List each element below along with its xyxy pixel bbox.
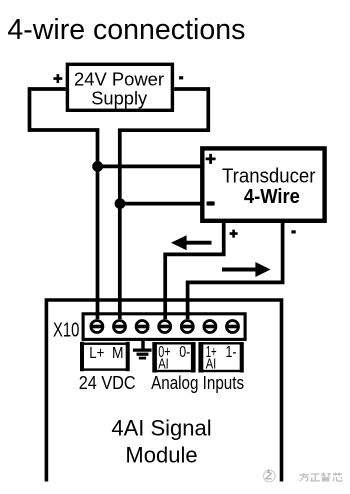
- svg-text:AI: AI: [206, 355, 217, 372]
- junction node dot 1 (L+ to transducer +): [92, 161, 103, 172]
- svg-text:Supply: Supply: [91, 88, 148, 109]
- svg-text:Transducer: Transducer: [222, 166, 316, 188]
- label - (transducer input): [207, 201, 215, 205]
- svg-text:24V Power: 24V Power: [74, 69, 164, 90]
- svg-text:L+: L+: [89, 345, 104, 362]
- wire M : power supply - to terminal 2: [120, 89, 209, 319]
- svg-text:X10: X10: [53, 320, 79, 342]
- 4AI signal module box (open bottom): [46, 300, 281, 482]
- svg-text:0-: 0-: [179, 344, 190, 361]
- label + (power supply positive terminal): [53, 74, 62, 83]
- watermark text (simplified CJK strokes): [299, 473, 342, 482]
- transducer - output wire to terminal 5: [188, 221, 283, 319]
- svg-text:4-wire connections: 4-wire connections: [7, 14, 245, 46]
- terminal screw 3 (functional earth): [136, 321, 148, 333]
- terminal screw 6 (1+): [204, 321, 216, 333]
- label - (transducer output wire): [291, 230, 295, 233]
- svg-text:4-Wire: 4-Wire: [244, 186, 300, 208]
- terminal screw 4 (0+): [159, 321, 171, 333]
- wire node2 to transducer - input: [120, 202, 203, 206]
- svg-text:4AI Signal: 4AI Signal: [111, 415, 211, 440]
- 4AI Signal Module label: [111, 415, 211, 467]
- label + (transducer output wire): [230, 230, 238, 238]
- label + (transducer input): [206, 154, 216, 164]
- svg-text:1-: 1-: [226, 344, 237, 361]
- watermark logo icon: [264, 470, 276, 482]
- transducer box: [202, 148, 324, 220]
- svg-text:Analog Inputs: Analog Inputs: [151, 373, 244, 393]
- transducer + output wire to terminal 4: [165, 221, 224, 319]
- svg-text:M: M: [112, 345, 124, 362]
- 24VDC terminal label box (L+ M): [80, 342, 130, 371]
- terminal screw 2 (M): [114, 321, 126, 333]
- svg-text:AI: AI: [158, 355, 169, 372]
- analog input 1 terminal label box (1+ AI 1-): [198, 342, 243, 372]
- analog input 0 terminal label box (0+ AI 0-): [152, 342, 195, 372]
- wire L+ : power supply + to terminal 1: [30, 89, 98, 319]
- terminal screw 1 (L+): [91, 321, 103, 333]
- power supply box: [67, 64, 172, 110]
- current direction arrow (right, return): [222, 262, 271, 277]
- svg-text:Module: Module: [125, 443, 197, 468]
- functional earth ground symbol: [133, 341, 152, 358]
- junction node dot 2 (M to transducer -): [115, 198, 126, 209]
- terminal screw 5 (0-): [181, 321, 193, 333]
- label - (power supply negative terminal): [179, 76, 183, 79]
- terminal screw 7 (1-): [227, 321, 239, 333]
- terminal block X10 outline: [83, 314, 245, 340]
- current direction arrow (left, toward module): [171, 235, 212, 250]
- svg-text:24 VDC: 24 VDC: [79, 373, 136, 393]
- wire node1 to transducer + input: [98, 165, 203, 169]
